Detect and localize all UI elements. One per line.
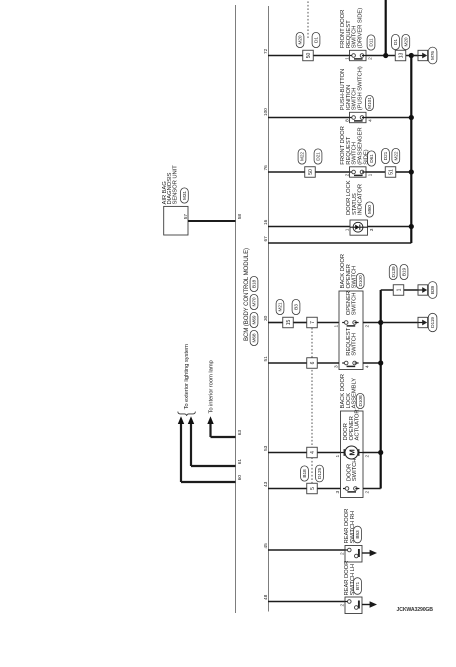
svg-text:72: 72 — [263, 48, 269, 54]
connector D11 — [367, 35, 375, 50]
svg-text:M20: M20 — [298, 35, 304, 44]
wire BCM pin 76 — [263, 165, 349, 172]
connector B18 — [301, 466, 309, 481]
svg-text:57: 57 — [183, 214, 189, 220]
svg-text:1: 1 — [396, 288, 402, 291]
inline connector box pin 15 (M21/B3) — [283, 317, 294, 328]
svg-text:ACTUATOR: ACTUATOR — [355, 409, 361, 440]
inline connector box pin 6 — [307, 358, 318, 369]
svg-text:B19: B19 — [402, 267, 408, 276]
connector D100 — [356, 273, 364, 288]
connector D21 — [314, 149, 322, 164]
svg-text:D108: D108 — [358, 395, 364, 406]
svg-text:1: 1 — [344, 57, 350, 60]
svg-text:M60: M60 — [367, 205, 373, 214]
svg-text:BCM (BODY CONTROL MODULE): BCM (BODY CONTROL MODULE) — [243, 248, 250, 341]
connector D61 — [368, 151, 376, 166]
svg-text:SENSOR UNIT: SENSOR UNIT — [172, 165, 178, 205]
wire BCM pin 67 ground return — [263, 236, 411, 243]
svg-text:15: 15 — [286, 320, 292, 326]
connector B18 — [250, 276, 258, 291]
svg-text:4: 4 — [365, 365, 371, 368]
junction dot — [378, 360, 383, 365]
door lock status indicator M60 — [345, 180, 375, 235]
svg-text:(PUSH SWITCH): (PUSH SWITCH) — [358, 66, 364, 110]
dashed connector group line — [311, 328, 313, 484]
connector M69 — [250, 312, 258, 327]
svg-text:D21: D21 — [383, 151, 389, 160]
svg-text:D1: D1 — [393, 39, 399, 45]
svg-text:D1: D1 — [314, 37, 320, 43]
svg-text:D21: D21 — [316, 152, 322, 161]
connector M22 — [392, 148, 400, 163]
inline connector box pin 13 (D1/M20) — [395, 50, 406, 61]
wire BCM pin 58 to air bag unit pin 57 — [183, 214, 243, 221]
connector D1 — [392, 34, 400, 49]
svg-text:6: 6 — [310, 361, 316, 364]
junction dot — [378, 320, 383, 325]
connector M22 — [298, 149, 306, 164]
junction dot branch to right edge — [383, 53, 388, 58]
wire BCM pin 72 — [263, 48, 349, 55]
svg-text:2: 2 — [365, 490, 371, 493]
svg-text:13: 13 — [398, 53, 404, 59]
svg-text:8: 8 — [344, 119, 350, 122]
wire BCM pin 63 to interior room lamp arrow — [207, 416, 243, 437]
svg-text:58: 58 — [237, 214, 243, 220]
connector M20 — [296, 32, 304, 47]
svg-text:M20: M20 — [403, 37, 409, 46]
wire driver request switch to junction — [366, 55, 411, 57]
connector B19 — [400, 264, 408, 279]
svg-text:M31: M31 — [182, 191, 188, 200]
wire push switch to common line — [366, 117, 411, 119]
svg-text:D139: D139 — [391, 266, 397, 277]
back door switch contact — [335, 459, 371, 494]
wire BCM pin 61 to exterior lighting arrow — [188, 416, 243, 466]
svg-text:D119: D119 — [430, 317, 436, 328]
inline connector box pin 1 (D139/B19) — [393, 285, 404, 296]
wire BCM pin 53 — [263, 445, 340, 452]
svg-text:M: M — [347, 449, 356, 455]
svg-text:7: 7 — [310, 321, 316, 324]
svg-text:3: 3 — [335, 490, 341, 493]
svg-text:B18: B18 — [252, 279, 258, 288]
svg-text:2: 2 — [368, 57, 374, 60]
common wire rows 72-16 — [410, 56, 412, 244]
connector B71 — [354, 578, 362, 595]
connector M101 — [366, 95, 374, 110]
svg-text:SWITCH: SWITCH — [352, 459, 358, 482]
wire BCM pin 43 — [263, 481, 340, 488]
inline connector box pin 4 — [307, 447, 318, 458]
svg-text:16: 16 — [263, 219, 269, 225]
module BCM (BODY CONTROL MODULE) — [236, 5, 269, 613]
svg-text:D11: D11 — [369, 38, 375, 47]
request switch contact — [334, 327, 371, 368]
front door request switch passenger side D61 — [340, 126, 374, 177]
inline connector box pin 7 — [307, 317, 318, 328]
svg-text:2: 2 — [365, 324, 371, 327]
wire branch to sheet edge — [385, 0, 387, 56]
svg-text:To interior room lamp: To interior room lamp — [209, 359, 215, 413]
inline connector box pin 50 (M22/D21) — [305, 167, 316, 178]
opener switch contact — [334, 291, 371, 328]
connector D108 — [356, 393, 364, 408]
svg-text:M22: M22 — [300, 152, 306, 161]
svg-text:67: 67 — [263, 236, 269, 242]
wire branch to connector B19/B39 — [381, 289, 418, 291]
svg-text:B39: B39 — [430, 285, 436, 294]
wire BCM pin 45 — [263, 543, 345, 550]
wire BCM pin 16 — [263, 219, 350, 226]
back door lock assembly D108 box — [340, 374, 363, 497]
svg-text:SWITCH: SWITCH — [351, 333, 357, 356]
inline connector box pin 51 (D21/M22) — [385, 167, 396, 178]
svg-text:51: 51 — [263, 356, 269, 362]
brace grouping arrows 60 and 61 — [178, 412, 196, 416]
junction dot — [378, 450, 383, 455]
svg-text:To exterior lighting system: To exterior lighting system — [184, 344, 190, 410]
wire door switch to common line — [363, 488, 381, 490]
svg-text:B3: B3 — [294, 304, 300, 310]
svg-text:61: 61 — [237, 459, 243, 465]
svg-text:INDICATOR: INDICATOR — [358, 184, 364, 215]
svg-text:48: 48 — [263, 594, 269, 600]
svg-text:M70: M70 — [252, 297, 258, 306]
svg-text:100: 100 — [263, 108, 269, 116]
svg-text:M76: M76 — [430, 51, 436, 60]
svg-text:1: 1 — [334, 324, 340, 327]
svg-text:30: 30 — [263, 315, 269, 321]
wire actuator to common line — [363, 452, 381, 454]
junction dot — [409, 115, 414, 120]
svg-text:60: 60 — [237, 475, 243, 481]
svg-text:(DRIVER SIDE): (DRIVER SIDE) — [358, 8, 364, 48]
off-page connector B39 — [418, 285, 428, 295]
svg-text:M21: M21 — [278, 302, 284, 311]
connector D125 — [316, 465, 324, 482]
svg-text:5: 5 — [310, 487, 316, 490]
svg-text:4: 4 — [310, 451, 316, 454]
wire request switch to common line — [363, 362, 381, 364]
svg-text:1: 1 — [345, 228, 351, 231]
svg-text:63: 63 — [237, 430, 243, 436]
svg-text:SWITCH: SWITCH — [351, 293, 357, 316]
svg-text:43: 43 — [263, 481, 269, 487]
svg-text:M69: M69 — [252, 315, 258, 324]
svg-text:50: 50 — [308, 169, 314, 175]
wire BCM pin 30 — [263, 315, 339, 322]
connector M60 — [366, 202, 374, 217]
ground — [362, 601, 377, 608]
common wire back door — [380, 290, 382, 489]
connector D139 — [389, 264, 397, 279]
svg-text:B18: B18 — [302, 469, 308, 478]
connector B3 — [292, 299, 300, 314]
svg-text:D100: D100 — [358, 275, 364, 286]
ground — [362, 550, 377, 557]
svg-text:76: 76 — [263, 165, 269, 171]
rear door switch RH B53 — [340, 509, 362, 562]
junction dot — [409, 169, 414, 174]
svg-text:JCKWA3290GB: JCKWA3290GB — [397, 607, 434, 613]
svg-text:M101: M101 — [367, 97, 373, 109]
svg-text:1: 1 — [335, 454, 341, 457]
svg-text:3: 3 — [369, 228, 375, 231]
off-page connector M76 — [418, 50, 428, 60]
svg-text:2: 2 — [340, 552, 346, 555]
connector M20 — [402, 34, 410, 49]
svg-text:D61: D61 — [369, 154, 375, 163]
rear door switch LH B71 — [340, 561, 362, 614]
dashed harness boundary line — [307, 0, 309, 38]
air bag diagnosis sensor unit M31 — [162, 165, 188, 235]
svg-text:51: 51 — [388, 169, 394, 175]
svg-text:B71: B71 — [355, 581, 361, 590]
svg-text:2: 2 — [340, 603, 346, 606]
wire BCM pin 48 — [263, 594, 345, 601]
wire passenger request switch lower — [366, 171, 385, 173]
push-button ignition switch M101 — [340, 66, 374, 122]
wire BCM pin 51 — [263, 356, 339, 363]
svg-text:3: 3 — [334, 365, 340, 368]
inline connector box pin 50 (M20/D1) — [303, 50, 314, 61]
front door request switch driver side D11 — [340, 8, 374, 61]
wire BCM pin 60 to exterior lighting arrow — [178, 416, 243, 482]
svg-text:50: 50 — [306, 53, 312, 59]
junction dot — [409, 224, 414, 229]
wire opener switch to common line — [363, 322, 381, 324]
wire indicator to common line — [368, 226, 412, 228]
connector D1 — [312, 32, 320, 47]
inline connector box pin 5 (B18/D125) — [307, 483, 318, 494]
door opener actuator motor M — [335, 409, 371, 459]
connector D21 — [382, 148, 390, 163]
svg-text:M68: M68 — [252, 333, 258, 342]
back door opener switch D100 assembly box — [339, 254, 363, 369]
svg-text:B53: B53 — [355, 530, 361, 539]
svg-text:M22: M22 — [393, 151, 399, 160]
connector M70 — [250, 294, 258, 309]
svg-text:2: 2 — [365, 454, 371, 457]
svg-text:53: 53 — [263, 445, 269, 451]
svg-text:1: 1 — [368, 173, 374, 176]
svg-text:4: 4 — [368, 119, 374, 122]
wire BCM pin 100 — [263, 108, 349, 118]
connector M21 — [276, 299, 284, 314]
junction dot common line — [409, 53, 414, 58]
wire to connector M76 — [411, 55, 418, 57]
connector B53 — [354, 526, 362, 543]
off-page connector D119 — [418, 317, 428, 327]
svg-text:45: 45 — [263, 543, 269, 549]
svg-text:2: 2 — [344, 173, 350, 176]
connector M68 — [250, 330, 258, 345]
wire to off-page connector D119 — [381, 322, 418, 324]
connector M31 — [181, 188, 189, 203]
svg-text:D125: D125 — [317, 468, 323, 479]
